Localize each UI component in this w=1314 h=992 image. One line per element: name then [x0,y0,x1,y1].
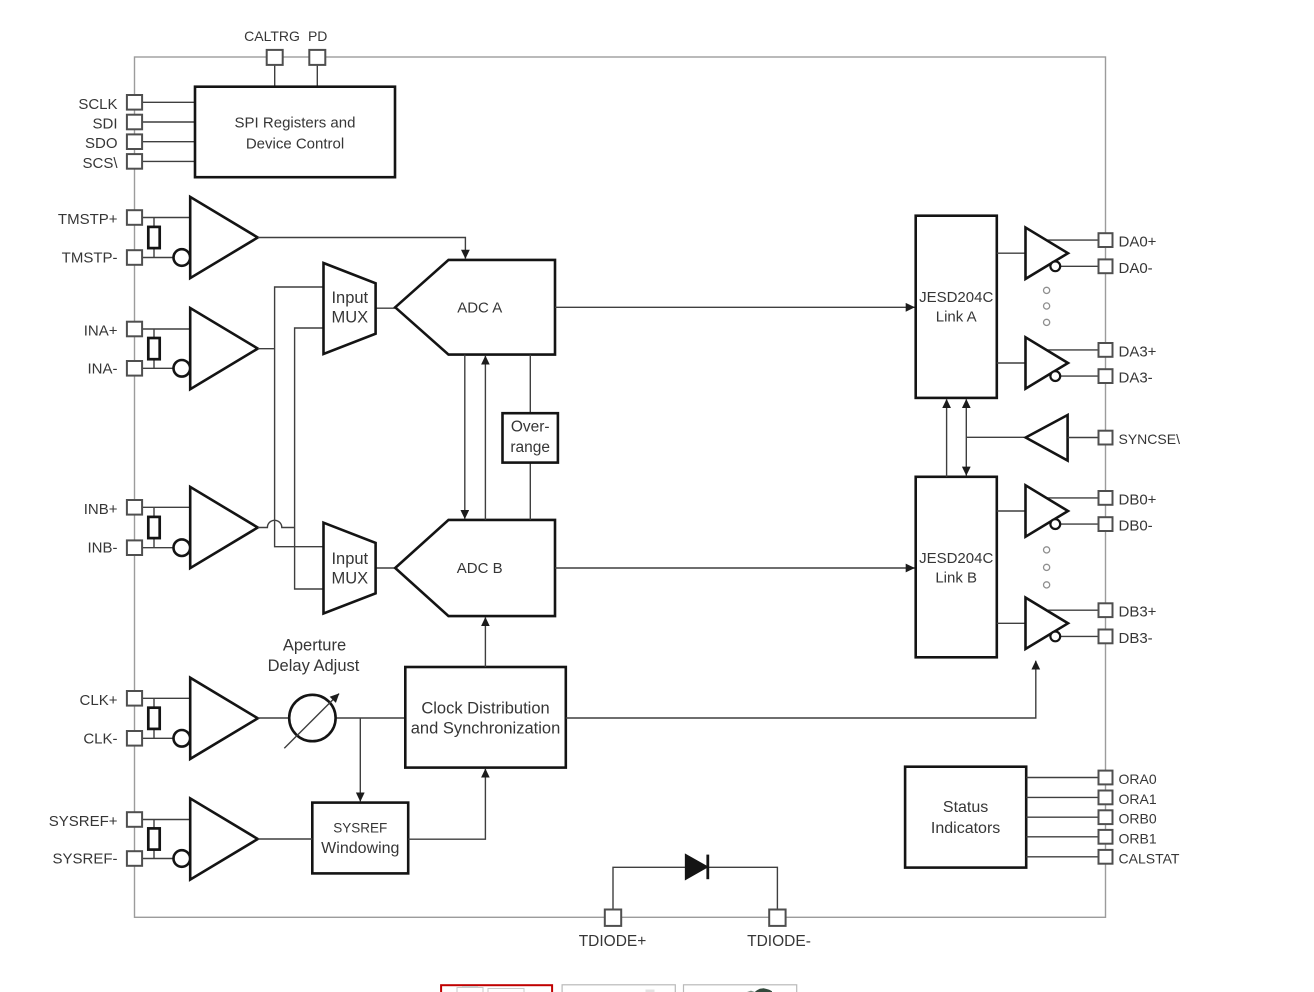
svg-text:TDIODE-: TDIODE- [747,933,811,950]
wire status ORA1 [1026,796,1098,798]
mux Input MUX A [324,263,376,354]
inverting bubble ina [174,360,191,377]
arrow across delay element [284,694,339,749]
wire INB+ input [142,506,190,508]
buffer amplifier clk [190,678,258,759]
wire link to buffer da0 [997,252,1026,254]
wire SDI to SPI block [142,121,195,123]
pin PD [309,50,325,65]
ellipsis dots between DB lanes [1044,547,1050,553]
buffer SYNCSE (left pointing) [1026,415,1068,461]
wire status ORA0 [1026,777,1098,779]
pin TDIODE+ [605,910,621,926]
resistor termination ina [148,338,159,359]
wire MUX B output [376,567,396,569]
wire ADC B to JESD204C Link B [555,567,915,569]
svg-text:Aperture: Aperture [283,637,346,655]
buffer amplifier tmstp [190,197,258,278]
inverting bubble clk [174,730,191,747]
svg-text:ORB0: ORB0 [1119,811,1157,827]
pin DB3- [1099,630,1113,644]
resistor termination tmstp [148,227,159,248]
wire DB3- output [1060,635,1099,637]
svg-text:Input: Input [331,550,368,568]
pin ORA0 [1099,771,1113,785]
wire resistor stubs ina [153,329,155,339]
pin INB- [127,540,142,555]
svg-text:Clock Distribution: Clock Distribution [421,700,549,718]
pin CALTRG [267,50,283,65]
svg-text:INB-: INB- [88,540,118,557]
wire link A to link B (up arrow) [946,399,948,477]
svg-text:INB+: INB+ [84,501,118,518]
pin CLK+ [127,691,142,706]
block JESD204C Link B [916,477,997,658]
block U1 SPI Registers and Device Control [195,87,395,178]
wire TMSTP- input [142,257,174,259]
svg-text:DB3-: DB3- [1119,630,1153,647]
wire PD stem [316,65,318,87]
svg-text:CLK-: CLK- [83,730,117,747]
inverting bubble da3 [1050,371,1060,381]
svg-text:SYSREF+: SYSREF+ [49,813,118,830]
pin DA3- [1099,369,1113,383]
ellipsis dots between DA lanes [1044,287,1050,293]
block SYSREF Windowing [312,803,408,874]
pin DA3+ [1099,343,1113,357]
wire resistor stubs inb [153,507,155,517]
svg-text:ORA0: ORA0 [1119,771,1157,787]
buffer amplifier ina [190,308,258,389]
svg-text:MUX: MUX [331,308,368,326]
svg-text:DA3+: DA3+ [1119,343,1157,360]
svg-text:CALSTAT: CALSTAT [1119,850,1180,866]
pin INB+ [127,500,142,515]
wire link A to link B bidirectional [965,399,967,475]
block Status Indicators [905,767,1026,868]
wire aperture delay to clock distribution [336,717,406,719]
wire CLK+ input [142,697,190,699]
wire SYNCSE pin to buffer [1068,437,1099,439]
svg-text:DB0+: DB0+ [1119,491,1157,508]
svg-text:Input: Input [331,289,368,307]
wire INA buffer output [258,348,275,350]
thumbnail 3 [684,985,797,992]
inverting bubble tmstp [174,249,191,266]
buffer serial driver db0 [1026,485,1069,536]
wire resistor stubs tmstp [153,218,155,228]
wire SDO to SPI block [142,141,195,143]
svg-text:Windowing: Windowing [321,840,399,857]
resistor termination sysref [148,828,159,849]
wire INB buffer output with hop [258,520,295,527]
wire DA3- output [1060,375,1099,377]
svg-text:SPI Registers and: SPI Registers and [235,115,356,132]
svg-text:SDI: SDI [92,116,117,133]
svg-text:JESD204C: JESD204C [919,550,993,567]
wire clock distribution to serializers (up arrow) [566,661,1036,718]
svg-text:Delay Adjust: Delay Adjust [268,657,360,675]
wire INA+ input [142,328,190,330]
inverting bubble db3 [1050,632,1060,642]
wire link to buffer db3 [997,622,1026,624]
svg-text:INA+: INA+ [84,323,118,340]
buffer serial driver db3 [1026,598,1069,649]
wire link to buffer da3 [997,362,1026,364]
svg-text:DA0-: DA0- [1119,260,1153,277]
svg-text:TMSTP+: TMSTP+ [58,211,118,228]
pin TDIODE- [769,910,785,926]
pin SDO [127,134,142,149]
wire ADC A to ADC B (down arrow) [464,355,466,519]
pin DB0- [1099,517,1113,531]
block JESD204C Link A [916,216,997,398]
pin CALSTAT [1099,850,1113,864]
pin INA+ [127,322,142,337]
buffer amplifier sysref [190,798,258,879]
block Over-range [503,413,558,462]
svg-text:Indicators: Indicators [931,820,1000,837]
svg-text:SYSREF: SYSREF [333,821,387,836]
mux Input MUX B [324,523,376,614]
wire DB0+ output [1045,497,1099,499]
inverting bubble sysref [174,850,191,867]
wire TMSTP buffer to ADC A [258,238,466,259]
wire SYSREF buffer to windowing block [258,838,313,840]
wire junction to SYSREF windowing (down arrow) [359,718,361,801]
wire TDIODE cathode [707,867,777,909]
wire status ORB0 [1026,816,1098,818]
wire clock distribution to ADC B (up arrow) [484,617,486,667]
svg-text:Link A: Link A [936,309,977,326]
buffer serial driver da3 [1026,337,1069,388]
svg-text:Device Control: Device Control [246,136,344,153]
adc core ADC A [395,260,555,355]
svg-text:ADC A: ADC A [457,299,502,316]
wire CLK buffer to aperture delay [258,717,289,719]
svg-text:MUX: MUX [331,569,368,587]
svg-text:DB3+: DB3+ [1119,604,1157,621]
wire DB0- output [1060,523,1099,525]
svg-text:DB0-: DB0- [1119,518,1153,535]
svg-text:range: range [510,439,550,456]
thumbnail selected (red) [441,985,552,992]
diode D1 thermal [686,855,708,880]
svg-text:PD: PD [308,28,327,44]
pin CLK- [127,731,142,746]
pin TMSTP+ [127,210,142,225]
svg-text:CLK+: CLK+ [80,692,118,709]
svg-text:ADC B: ADC B [457,560,503,577]
wire ADC B to ADC A (up arrow) [484,356,486,520]
resistor termination inb [148,517,159,538]
pin SYSREF- [127,851,142,866]
svg-text:INA-: INA- [88,360,118,377]
pin DB0+ [1099,491,1113,505]
pin DA0- [1099,259,1113,273]
pin SCLK [127,95,142,110]
inverting bubble db0 [1050,519,1060,529]
svg-text:SCS\: SCS\ [82,155,118,172]
svg-text:TDIODE+: TDIODE+ [579,933,647,950]
pin SYSREF+ [127,812,142,827]
wire INB- input [142,547,174,549]
wire DA0- output [1060,265,1099,267]
pin ORA1 [1099,791,1113,805]
pin DB3+ [1099,603,1113,617]
wire link to buffer db0 [997,510,1026,512]
svg-text:DA3-: DA3- [1119,370,1153,387]
svg-text:ORA1: ORA1 [1119,791,1157,807]
wire node swap bus B (vertical) [295,328,324,589]
variable delay element (aperture delay adjust) [289,695,335,741]
wire CLK- input [142,737,174,739]
svg-text:and Synchronization: and Synchronization [411,719,561,737]
block Clock Distribution and Synchronization [405,667,566,768]
resistor termination clk [148,708,159,729]
buffer serial driver da0 [1026,228,1069,279]
svg-text:SCLK: SCLK [78,96,117,113]
wire CALTRG stem [274,65,276,87]
svg-text:SYSREF-: SYSREF- [52,851,117,868]
inverting bubble inb [174,539,191,556]
wire status CALSTAT [1026,856,1098,858]
svg-text:SYNCSE\: SYNCSE\ [1119,431,1181,447]
wire TMSTP+ input [142,217,190,219]
wire resistor stubs clk [153,698,155,708]
wire SYSREF+ input [142,819,190,821]
wire MUX A output [376,307,396,309]
wire TDIODE anode [613,867,686,909]
wire SYSREF- input [142,858,174,860]
wire SCLK to SPI block [142,101,195,103]
svg-text:DA0+: DA0+ [1119,234,1157,251]
wire status ORB1 [1026,836,1098,838]
wire SCS\ to SPI block [142,160,195,162]
wire DA3+ output [1045,349,1099,351]
wire INA- input [142,367,174,369]
svg-text:CALTRG: CALTRG [244,28,300,44]
wire DB3+ output [1045,609,1099,611]
pin ORB0 [1099,810,1113,824]
pin SYNCSE [1099,431,1113,445]
inverting bubble da0 [1050,261,1060,271]
adc core ADC B [395,520,555,616]
wire Over-range to ADC B [529,463,531,520]
pin SCS\ [127,154,142,169]
wire DA0+ output [1045,239,1099,241]
svg-text:Link B: Link B [935,569,977,586]
wire node swap bus A (vertical) [275,287,324,547]
pin ORB1 [1099,830,1113,844]
wire SYNCSE to links [966,436,1025,438]
pin TMSTP- [127,250,142,265]
wire resistor stubs sysref [153,820,155,830]
svg-text:Status: Status [943,799,988,816]
svg-text:Over-: Over- [511,419,550,436]
buffer amplifier inb [190,487,258,568]
pin DA0+ [1099,233,1113,247]
svg-text:JESD204C: JESD204C [919,289,993,306]
pin INA- [127,361,142,376]
pin SDI [127,115,142,130]
svg-text:TMSTP-: TMSTP- [62,250,118,267]
svg-text:SDO: SDO [85,135,118,152]
wire ADC A to Over-range [529,355,531,414]
chip boundary border [135,57,1106,917]
thumbnail 2 [562,985,675,992]
wire ADC A to JESD204C Link A [555,306,915,308]
wire SYSREF windowing to clock distribution (up arrow) [408,769,485,839]
svg-text:ORB1: ORB1 [1119,830,1157,846]
